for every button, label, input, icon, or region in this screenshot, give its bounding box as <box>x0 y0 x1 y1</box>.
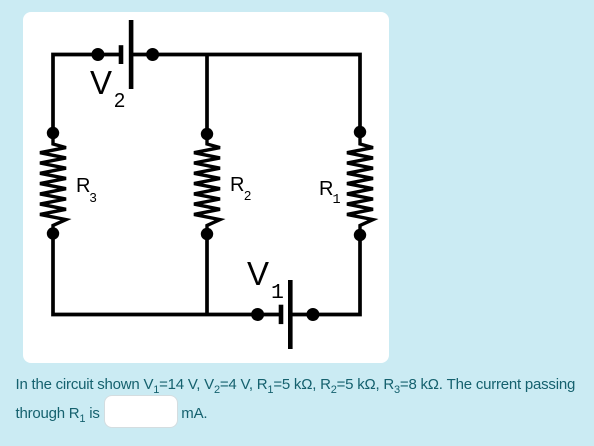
node dot R1 bottom <box>354 229 366 241</box>
question text line 1 <box>16 377 576 392</box>
node dot R3 top <box>47 127 59 139</box>
wire bottom-left: from R3 bottom down and along bottom to V1 short plate <box>53 234 279 315</box>
node dot left of V2 <box>91 48 104 61</box>
battery V1 long plate <box>288 280 293 349</box>
question text line 2 <box>16 406 100 421</box>
answer input box <box>104 395 178 428</box>
battery V1 short plate <box>279 305 284 324</box>
node dot R2 bottom <box>201 228 213 240</box>
question text line 2 suffix <box>181 406 207 421</box>
node dot R3 bottom <box>47 227 59 239</box>
label R2 <box>230 175 244 195</box>
wire top-left: left rail down from top wire corner to R3, and top wire to V2 short plate <box>53 55 119 134</box>
resistor R2 <box>194 134 220 234</box>
label R3 <box>76 176 90 196</box>
node dot right of V2 <box>146 48 159 61</box>
node dot right of V1 <box>306 308 319 321</box>
resistor R1 <box>347 132 373 234</box>
wire bottom-right: from V1 long plate to right corner and up to R1 bottom <box>290 235 360 315</box>
wire middle branch from top wire down to R2 <box>205 55 209 135</box>
label V2 <box>90 66 112 99</box>
battery V2 short plate <box>119 45 124 64</box>
wire R2 bottom to bottom rail <box>205 234 209 315</box>
circuit panel <box>23 12 389 363</box>
battery V2 long plate <box>129 20 134 89</box>
node dot left of V1 <box>251 308 264 321</box>
label R1 <box>319 179 333 199</box>
resistor R3 <box>40 133 66 234</box>
wire top-right: from V2 long plate across top to right corner, down to R1 <box>131 55 360 133</box>
node dot R2 top <box>201 128 213 140</box>
label V1 <box>247 257 269 290</box>
node dot R1 top <box>354 126 366 138</box>
